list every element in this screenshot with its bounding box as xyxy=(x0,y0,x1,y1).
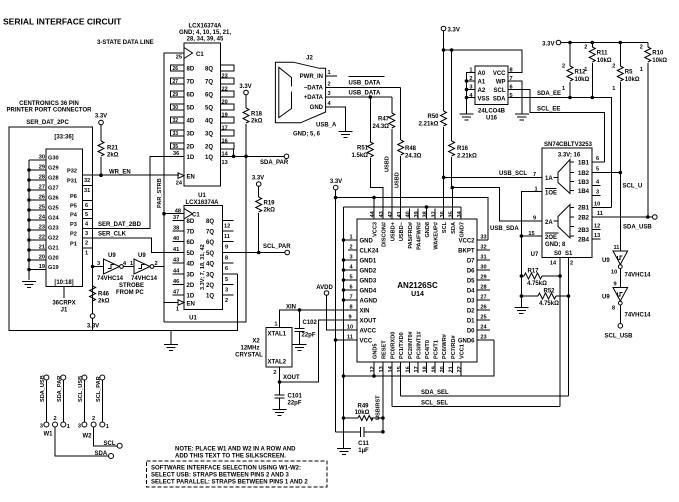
wire XIN xyxy=(280,304,358,327)
svg-text:PC0/RXD0: PC0/RXD0 xyxy=(390,332,396,359)
svg-text:PA4/FWR#: PA4/FWR# xyxy=(416,221,422,250)
svg-text:5D: 5D xyxy=(187,251,195,257)
U16 address pins bus to ground xyxy=(465,73,475,114)
svg-text:GND1: GND1 xyxy=(360,259,377,265)
U14 top pin numbers xyxy=(370,210,463,217)
svg-text:VCC1: VCC1 xyxy=(460,344,466,359)
jumper W2 pin SCL_USB xyxy=(78,375,87,422)
U7 2A mux funnel xyxy=(554,205,575,239)
connector J1 left pin names G30-G19 xyxy=(48,156,59,272)
svg-text:PWR_IN: PWR_IN xyxy=(300,74,323,80)
svg-text:27: 27 xyxy=(480,295,486,301)
svg-text:VCC: VCC xyxy=(360,339,373,345)
resistor R12 10k xyxy=(562,43,590,98)
latch U1 LCX16374A headers xyxy=(185,193,219,206)
wire P1 strobe drop xyxy=(91,248,104,268)
U7 right stubs 2B xyxy=(592,202,653,240)
svg-text:12: 12 xyxy=(370,366,376,372)
svg-text:D0: D0 xyxy=(467,329,475,335)
svg-text:USBD−: USBD− xyxy=(399,221,405,241)
resistor R52 4.75k xyxy=(520,289,571,308)
svg-text:2B2: 2B2 xyxy=(578,216,590,222)
svg-text:SCL_U: SCL_U xyxy=(623,184,643,190)
latch C1 LCX16374A headers xyxy=(179,24,231,43)
svg-text:11: 11 xyxy=(224,234,230,240)
resistor R48 24.3 series D- xyxy=(395,87,422,219)
svg-text:GND8: GND8 xyxy=(425,222,431,238)
svg-text:D3: D3 xyxy=(467,299,475,305)
svg-text:10kΩ: 10kΩ xyxy=(597,58,612,64)
svg-text:XTAL1: XTAL1 xyxy=(268,332,287,338)
svg-text:C1: C1 xyxy=(196,52,204,58)
svg-text:5: 5 xyxy=(596,167,599,173)
svg-text:20: 20 xyxy=(39,255,45,261)
svg-text:XIN: XIN xyxy=(360,309,370,315)
svg-text:G24: G24 xyxy=(48,216,59,222)
svg-text:38: 38 xyxy=(173,226,179,232)
svg-text:2: 2 xyxy=(53,416,56,422)
connector J1 bottom label 36CRPX J1 xyxy=(52,287,75,314)
svg-text:24: 24 xyxy=(39,215,46,221)
wire USB_DATA+ xyxy=(326,90,392,98)
svg-text:G27: G27 xyxy=(48,186,59,192)
svg-text:4Q: 4Q xyxy=(205,119,213,125)
latch C1 box xyxy=(176,43,221,186)
svg-text:SELECT PARALLEL: STRAPS BETWEE: SELECT PARALLEL: STRAPS BETWEEN PINS 1 A… xyxy=(151,480,308,486)
svg-text:29: 29 xyxy=(480,275,486,281)
svg-text:P32: P32 xyxy=(67,169,77,175)
wire SDA_EE xyxy=(508,91,612,207)
latch U1 right stubs and numbers xyxy=(223,221,234,304)
connector J1 left pin stubs and numbers 30-19 xyxy=(29,155,46,271)
svg-text:1: 1 xyxy=(349,235,352,241)
svg-text:GND; 5, 6: GND; 5, 6 xyxy=(293,132,321,138)
svg-text:SDA_USB: SDA_USB xyxy=(623,225,652,231)
svg-text:GND7: GND7 xyxy=(460,222,466,238)
svg-text:27: 27 xyxy=(173,79,179,85)
svg-text:A0: A0 xyxy=(478,71,486,77)
svg-text:SCL_EE: SCL_EE xyxy=(537,107,560,113)
svg-text:D1: D1 xyxy=(467,319,475,325)
svg-text:3Q: 3Q xyxy=(205,132,213,138)
svg-text:USBD: USBD xyxy=(385,156,391,172)
svg-text:SOFTWARE INTERFACE SELECTION U: SOFTWARE INTERFACE SELECTION USING W1-W2… xyxy=(151,466,301,472)
svg-text:C101: C101 xyxy=(288,394,303,400)
svg-text:26: 26 xyxy=(173,66,179,72)
svg-text:9: 9 xyxy=(225,244,228,250)
U16 pin numbers xyxy=(469,68,512,100)
svg-text:1A: 1A xyxy=(545,176,553,182)
resistor R5 10k xyxy=(612,43,640,173)
U7 designator and bottom pins xyxy=(531,252,573,267)
resistor R11 10k xyxy=(584,43,612,98)
svg-text:11: 11 xyxy=(614,245,620,251)
svg-text:11: 11 xyxy=(597,211,603,217)
svg-text:3.3V: 3.3V xyxy=(95,114,107,120)
capacitor C101 22pF xyxy=(274,382,302,409)
svg-text:28: 28 xyxy=(39,175,45,181)
svg-text:PRINTER PORT CONNECTOR: PRINTER PORT CONNECTOR xyxy=(7,108,93,114)
U14 right pin names xyxy=(458,239,475,345)
net PAR_STRB vertical xyxy=(157,53,184,322)
svg-text:−DATA: −DATA xyxy=(304,85,324,91)
svg-text:1D: 1D xyxy=(187,294,195,300)
3.3V terminal above R18 xyxy=(239,84,251,95)
svg-text:3.3V: 3.3V xyxy=(542,42,554,48)
svg-text:10: 10 xyxy=(594,202,600,208)
svg-text:PAR_STRB: PAR_STRB xyxy=(157,178,163,208)
svg-text:P6: P6 xyxy=(70,194,77,200)
svg-text:24LCO4B: 24LCO4B xyxy=(478,109,506,115)
U7 1A mux funnel xyxy=(554,160,575,194)
svg-text:C11: C11 xyxy=(358,441,369,447)
svg-text:PC6/WR#: PC6/WR# xyxy=(442,333,448,359)
svg-text:G28: G28 xyxy=(48,176,59,182)
svg-text:SCL: SCL xyxy=(442,221,448,233)
svg-text:3Q: 3Q xyxy=(206,273,214,279)
svg-text:22pF: 22pF xyxy=(302,333,316,339)
U14 bottom pin numbers xyxy=(370,365,463,372)
label 3-STATE DATA LINE xyxy=(97,40,154,46)
svg-text:J2: J2 xyxy=(306,56,313,62)
U7 2OE wire xyxy=(520,234,542,238)
svg-text:W2: W2 xyxy=(83,434,93,440)
svg-text:SCL: SCL xyxy=(104,441,116,447)
svg-text:R19: R19 xyxy=(264,201,276,207)
AVDD terminal xyxy=(316,285,357,330)
resistor R47 24.3 series D+ xyxy=(373,97,395,219)
svg-text:P5: P5 xyxy=(70,204,77,210)
svg-text:SER_CLK: SER_CLK xyxy=(98,232,127,238)
svg-text:30: 30 xyxy=(173,105,179,111)
svg-text:PC4/T0: PC4/T0 xyxy=(425,340,431,359)
svg-text:D5: D5 xyxy=(467,279,475,285)
wire USB_DATA- (overlined) xyxy=(326,77,401,88)
svg-text:2kΩ: 2kΩ xyxy=(107,153,119,159)
svg-text:SDA: SDA xyxy=(95,451,108,457)
svg-text:P3: P3 xyxy=(70,222,77,228)
svg-text:31: 31 xyxy=(84,188,90,194)
svg-text:3: 3 xyxy=(328,91,331,97)
svg-text:XIN: XIN xyxy=(286,304,296,310)
svg-text:2: 2 xyxy=(85,241,88,247)
svg-text:1: 1 xyxy=(130,261,133,267)
svg-text:40: 40 xyxy=(406,211,412,217)
connector J1 right pin names P32..P1 xyxy=(67,169,78,248)
svg-text:23: 23 xyxy=(480,335,486,341)
svg-text:5D: 5D xyxy=(187,106,195,112)
svg-text:2: 2 xyxy=(570,261,573,267)
svg-text:D6: D6 xyxy=(467,269,475,275)
svg-text:7D: 7D xyxy=(187,230,195,236)
svg-text:21: 21 xyxy=(39,245,45,251)
svg-text:GND3: GND3 xyxy=(360,279,377,285)
svg-text:39: 39 xyxy=(414,211,420,217)
svg-text:C1: C1 xyxy=(192,213,200,219)
svg-text:EN: EN xyxy=(187,301,195,307)
svg-text:42: 42 xyxy=(388,211,394,217)
svg-text:1µF: 1µF xyxy=(358,448,369,454)
U14 right pin stubs xyxy=(477,240,494,340)
svg-text:3: 3 xyxy=(349,255,352,261)
svg-text:2kΩ: 2kΩ xyxy=(251,119,263,125)
latch C1 left stub boxes pins 26-35 xyxy=(171,65,185,157)
svg-text:GND5: GND5 xyxy=(373,343,379,359)
svg-text:2: 2 xyxy=(225,298,228,304)
svg-text:R48: R48 xyxy=(405,146,417,152)
svg-text:2Q: 2Q xyxy=(205,145,213,151)
svg-text:AVCC: AVCC xyxy=(360,329,377,335)
svg-text:30: 30 xyxy=(480,265,486,271)
svg-text:J1: J1 xyxy=(61,308,68,314)
svg-text:22: 22 xyxy=(457,366,463,372)
svg-text:[10:18]: [10:18] xyxy=(54,280,73,286)
svg-text:36: 36 xyxy=(173,151,179,157)
J2 GND pin to ground xyxy=(326,107,353,138)
svg-text:2: 2 xyxy=(273,370,276,376)
svg-text:4Q: 4Q xyxy=(206,262,214,268)
svg-text:3: 3 xyxy=(78,424,81,430)
svg-text:4D: 4D xyxy=(187,262,195,268)
svg-text:2Q: 2Q xyxy=(206,283,214,289)
3.3V terminal for pull-up bank xyxy=(542,40,561,47)
svg-text:GND; 4, 10, 15, 21,: GND; 4, 10, 15, 21, xyxy=(179,30,231,36)
svg-text:32: 32 xyxy=(84,178,90,184)
svg-text:8: 8 xyxy=(612,306,615,312)
svg-text:SCL: SCL xyxy=(494,88,506,94)
svg-text:1: 1 xyxy=(612,86,615,92)
wire SCL from W2 pin2 xyxy=(94,427,123,448)
EEPROM U16 24LC04B xyxy=(475,66,508,122)
ground symbol below U14 xyxy=(337,449,351,455)
svg-text:19: 19 xyxy=(431,366,437,372)
svg-text:SDA: SDA xyxy=(493,97,506,103)
svg-text:2: 2 xyxy=(562,64,565,70)
U14 right pin numbers xyxy=(480,235,487,341)
resistor R50 2.21k pull-up USB_SCL xyxy=(419,50,447,177)
svg-text:GND6: GND6 xyxy=(458,339,475,345)
svg-text:G21: G21 xyxy=(48,246,59,252)
svg-text:17: 17 xyxy=(414,366,420,372)
U7 internal 1B labels xyxy=(578,161,590,244)
svg-text:S1: S1 xyxy=(565,251,573,257)
wire SDA_SEL xyxy=(401,390,569,396)
svg-text:74VHC14: 74VHC14 xyxy=(131,276,158,282)
svg-text:1.5kΩ: 1.5kΩ xyxy=(352,153,369,159)
svg-text:PC3/INT1#: PC3/INT1# xyxy=(416,330,422,359)
svg-text:32: 32 xyxy=(480,245,486,251)
net SDA_PAR wire from C1 1Q xyxy=(221,149,289,166)
svg-text:G30: G30 xyxy=(48,156,59,162)
U7 1OE wire xyxy=(521,192,542,297)
inverter U9c 74VHC14 xyxy=(602,173,651,279)
svg-text:1Q: 1Q xyxy=(206,294,214,300)
svg-text:2: 2 xyxy=(349,245,352,251)
svg-text:CLK24: CLK24 xyxy=(360,249,380,255)
svg-text:35: 35 xyxy=(449,211,455,217)
GND bus left of U14 xyxy=(342,207,346,448)
U14 left pin stubs xyxy=(336,240,358,340)
svg-text:3.3V; 7, 18, 31, 42: 3.3V; 7, 18, 31, 42 xyxy=(200,244,206,290)
svg-text:7: 7 xyxy=(533,172,536,178)
latch U1 D/Q row labels xyxy=(187,219,215,299)
svg-text:2: 2 xyxy=(92,416,95,422)
svg-text:SCL_USB: SCL_USB xyxy=(605,334,634,340)
svg-text:5: 5 xyxy=(225,277,228,283)
latch U1 EN pin with arrow xyxy=(164,300,195,313)
svg-text:STROBE: STROBE xyxy=(119,283,144,289)
svg-text:SCL_SEL: SCL_SEL xyxy=(421,401,448,407)
svg-text:PC7/RD#: PC7/RD# xyxy=(451,334,457,359)
svg-text:G23: G23 xyxy=(48,226,59,232)
svg-text:22: 22 xyxy=(39,235,45,241)
wire SER_CLK P2 to U1 5D xyxy=(93,232,184,253)
3.3V terminal above R19 xyxy=(252,176,264,187)
svg-text:26: 26 xyxy=(39,195,45,201)
svg-text:1: 1 xyxy=(640,67,643,73)
svg-text:6Q: 6Q xyxy=(205,93,213,99)
svg-text:2D: 2D xyxy=(187,283,195,289)
svg-text:2OE: 2OE xyxy=(545,235,557,241)
svg-text:11: 11 xyxy=(347,335,353,341)
svg-text:3: 3 xyxy=(40,424,43,430)
svg-text:5Q: 5Q xyxy=(205,106,213,112)
svg-text:SDA_PAR: SDA_PAR xyxy=(260,160,289,166)
svg-text:2B1: 2B1 xyxy=(578,206,590,212)
svg-text:74VHC14: 74VHC14 xyxy=(625,273,652,279)
wire SER_DAT_2BD P3 to C1 1D xyxy=(93,156,184,228)
svg-text:R10: R10 xyxy=(652,51,664,57)
svg-text:13: 13 xyxy=(379,366,385,372)
resistor R51 1.5k (D+ to DISCON#) xyxy=(352,97,383,219)
svg-text:PC1/TXD0: PC1/TXD0 xyxy=(399,332,405,359)
ground below R17/R52 column xyxy=(514,296,528,314)
svg-text:1: 1 xyxy=(106,424,109,430)
svg-text:GND2: GND2 xyxy=(360,269,377,275)
svg-text:6: 6 xyxy=(596,156,599,162)
svg-text:1: 1 xyxy=(562,86,565,92)
svg-text:6D: 6D xyxy=(187,93,195,99)
wire SDA from W1 pin2 xyxy=(55,427,114,459)
svg-text:G29: G29 xyxy=(48,166,59,172)
wire USB_SCL xyxy=(442,171,542,179)
svg-text:44: 44 xyxy=(173,269,180,275)
svg-text:R47: R47 xyxy=(378,117,390,123)
svg-text:PC2/INT0#: PC2/INT0# xyxy=(408,330,414,359)
svg-text:SER_DAT_2PC: SER_DAT_2PC xyxy=(26,120,69,126)
svg-text:2B4: 2B4 xyxy=(578,238,590,244)
jumper W2 bottom pins xyxy=(78,416,109,439)
svg-text:U1: U1 xyxy=(189,316,197,322)
svg-text:AVDD: AVDD xyxy=(316,285,333,291)
svg-text:5: 5 xyxy=(349,275,352,281)
ground below U16 left xyxy=(460,114,474,120)
svg-text:7D: 7D xyxy=(187,80,195,86)
latch U1 box xyxy=(175,206,223,310)
svg-text:40: 40 xyxy=(173,236,179,242)
svg-text:USB_SCL: USB_SCL xyxy=(499,171,527,177)
svg-text:SN74CBLTV3253: SN74CBLTV3253 xyxy=(544,142,593,148)
svg-text:U16: U16 xyxy=(486,116,498,122)
3.3V rail A to VCC3 and VCC2 xyxy=(334,190,488,240)
svg-text:4D: 4D xyxy=(187,119,195,125)
svg-text:CENTRONICS 36 PIN: CENTRONICS 36 PIN xyxy=(19,101,79,107)
svg-text:21: 21 xyxy=(449,366,455,372)
svg-text:EN: EN xyxy=(187,175,195,181)
svg-text:USB_DATA: USB_DATA xyxy=(349,81,381,87)
svg-text:24: 24 xyxy=(480,325,487,331)
software note dashed box xyxy=(147,461,328,487)
svg-text:36CRPX: 36CRPX xyxy=(52,301,75,307)
svg-text:2kΩ: 2kΩ xyxy=(264,208,276,214)
svg-text:8D: 8D xyxy=(187,67,195,73)
jumper W2 pin SCL_PAR xyxy=(96,375,105,422)
svg-text:R17: R17 xyxy=(527,269,539,275)
svg-text:G22: G22 xyxy=(48,236,59,242)
U14 top pin names xyxy=(373,221,466,250)
svg-text:5: 5 xyxy=(85,212,88,218)
svg-text:R16: R16 xyxy=(457,146,469,152)
connector J1 header labels xyxy=(7,101,93,126)
svg-text:1Q: 1Q xyxy=(205,155,213,161)
note text xyxy=(175,447,296,460)
svg-text:8: 8 xyxy=(349,305,352,311)
svg-text:23: 23 xyxy=(39,225,45,231)
svg-text:W1: W1 xyxy=(44,432,54,438)
svg-text:3.3V: 3.3V xyxy=(330,179,342,185)
svg-text:34: 34 xyxy=(457,210,463,217)
svg-text:SDA: SDA xyxy=(451,222,457,234)
svg-text:U9: U9 xyxy=(108,253,116,259)
svg-text:U1: U1 xyxy=(198,193,206,199)
svg-text:3.3V: 3.3V xyxy=(239,84,251,90)
svg-text:9: 9 xyxy=(348,315,351,321)
svg-text:D7: D7 xyxy=(467,259,475,265)
svg-text:10kΩ: 10kΩ xyxy=(625,77,640,83)
capacitor C11 1uF xyxy=(336,427,385,454)
svg-text:7: 7 xyxy=(349,295,352,301)
svg-text:SER_DAT_2BD: SER_DAT_2BD xyxy=(98,222,142,228)
wire WR_EN P32 to C1 EN xyxy=(93,170,179,178)
svg-text:3: 3 xyxy=(85,231,88,237)
svg-text:WP: WP xyxy=(496,80,506,86)
svg-text:SDA_PAR: SDA_PAR xyxy=(57,376,63,402)
svg-text:6: 6 xyxy=(225,266,228,272)
svg-text:4.75kΩ: 4.75kΩ xyxy=(527,281,547,287)
svg-text:26: 26 xyxy=(480,305,486,311)
svg-text:16: 16 xyxy=(406,366,412,372)
resistor R21 2k xyxy=(98,125,119,175)
svg-text:A1: A1 xyxy=(478,80,486,86)
resistor R19 2k xyxy=(256,186,275,252)
svg-text:8D: 8D xyxy=(187,219,195,225)
connector J1 inner box xyxy=(46,135,82,287)
resistor R10 10k xyxy=(640,43,668,218)
svg-text:35: 35 xyxy=(173,144,179,150)
svg-text:GND: GND xyxy=(360,239,374,245)
svg-text:G26: G26 xyxy=(48,196,59,202)
svg-text:G20: G20 xyxy=(48,256,59,262)
svg-text:R21: R21 xyxy=(107,146,119,152)
svg-text:3.3V: 3.3V xyxy=(87,324,99,330)
U14 top pin stubs xyxy=(374,177,461,219)
svg-text:47: 47 xyxy=(173,290,179,296)
svg-text:2.21kΩ: 2.21kΩ xyxy=(457,154,477,160)
svg-text:VCC2: VCC2 xyxy=(458,239,475,245)
svg-text:43: 43 xyxy=(379,211,385,217)
ground below U16 right xyxy=(515,114,529,120)
U14 left pin names xyxy=(360,239,380,345)
